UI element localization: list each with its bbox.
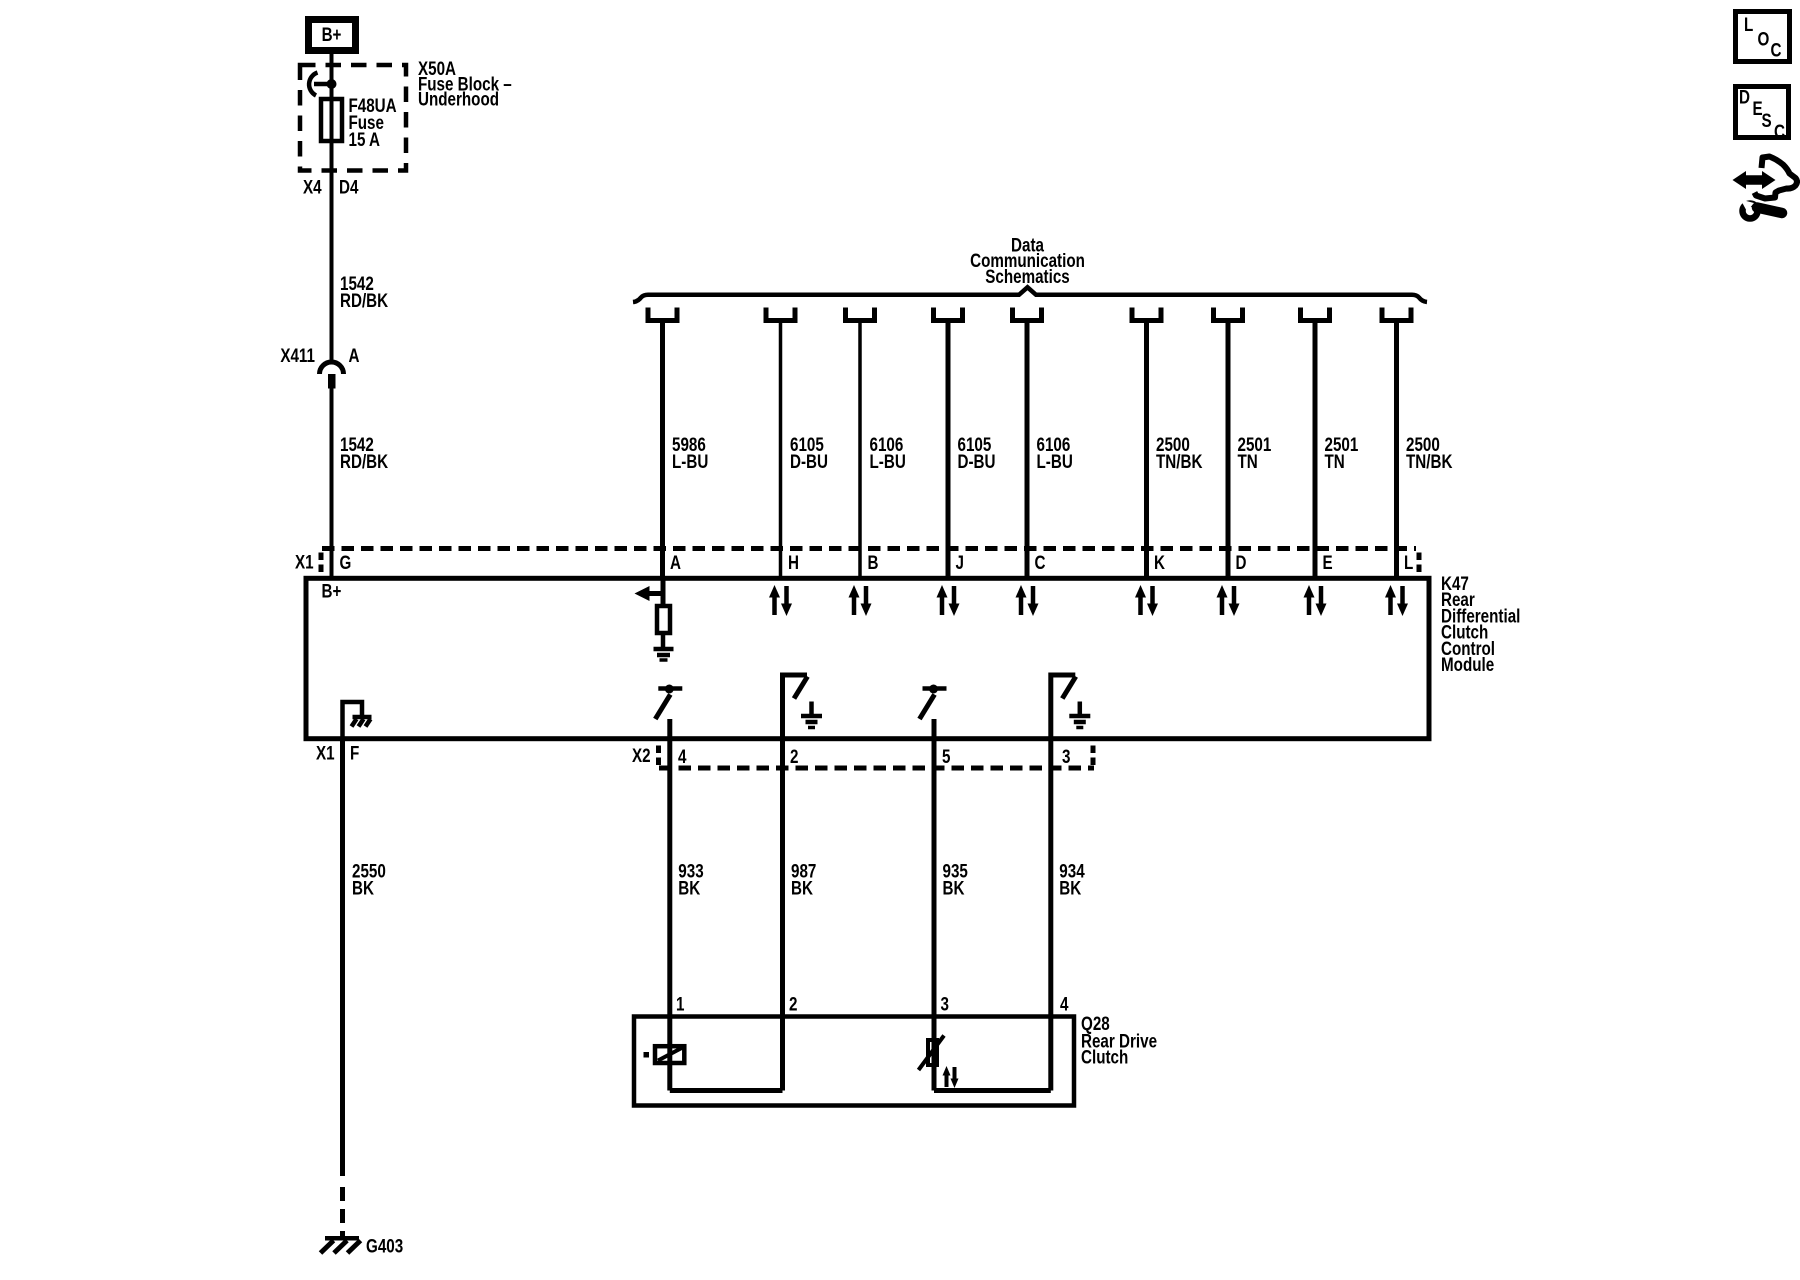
svg-text:2: 2 xyxy=(790,745,799,767)
svg-text:H: H xyxy=(788,551,799,573)
svg-text:E: E xyxy=(1323,551,1333,573)
svg-text:X1: X1 xyxy=(295,551,314,573)
svg-text:A: A xyxy=(349,344,360,366)
svg-text:B+: B+ xyxy=(322,23,342,45)
svg-text:X1: X1 xyxy=(316,741,335,763)
svg-text:3: 3 xyxy=(941,993,950,1015)
svg-text:TN: TN xyxy=(1238,450,1258,472)
svg-text:BK: BK xyxy=(943,877,965,899)
svg-text:Schematics: Schematics xyxy=(985,265,1069,287)
svg-text:2: 2 xyxy=(789,993,798,1015)
svg-text:5: 5 xyxy=(942,745,951,767)
svg-text:Clutch: Clutch xyxy=(1081,1046,1128,1068)
svg-text:BK: BK xyxy=(352,877,374,899)
svg-text:4: 4 xyxy=(678,745,687,767)
svg-text:1: 1 xyxy=(676,993,685,1015)
svg-text:D-BU: D-BU xyxy=(790,450,828,472)
svg-text:4: 4 xyxy=(1060,993,1069,1015)
svg-text:L-BU: L-BU xyxy=(1037,450,1073,472)
svg-text:BK: BK xyxy=(678,877,700,899)
svg-text:3: 3 xyxy=(1062,745,1071,767)
svg-text:D-BU: D-BU xyxy=(958,450,996,472)
svg-text:Module: Module xyxy=(1441,653,1494,675)
svg-text:G: G xyxy=(340,551,352,573)
svg-text:C: C xyxy=(1035,551,1046,573)
svg-text:X411: X411 xyxy=(280,344,315,366)
svg-text:L-BU: L-BU xyxy=(672,450,708,472)
svg-text:K: K xyxy=(1154,551,1165,573)
svg-text:S: S xyxy=(1762,109,1772,131)
svg-text:TN: TN xyxy=(1325,450,1345,472)
svg-text:D: D xyxy=(1236,551,1247,573)
svg-text:G403: G403 xyxy=(366,1235,403,1257)
svg-text:RD/BK: RD/BK xyxy=(340,450,388,472)
svg-text:B+: B+ xyxy=(322,580,342,602)
svg-text:X2: X2 xyxy=(632,744,651,766)
svg-text:TN/BK: TN/BK xyxy=(1156,450,1203,472)
svg-text:O: O xyxy=(1758,28,1770,50)
svg-text:L: L xyxy=(1744,13,1754,35)
svg-text:B: B xyxy=(868,551,879,573)
svg-text:15 A: 15 A xyxy=(349,128,381,150)
svg-text:D4: D4 xyxy=(339,175,359,197)
svg-text:Underhood: Underhood xyxy=(418,88,499,110)
svg-text:RD/BK: RD/BK xyxy=(340,289,388,311)
svg-text:L: L xyxy=(1404,551,1414,573)
svg-text:L-BU: L-BU xyxy=(870,450,906,472)
svg-text:A: A xyxy=(670,551,681,573)
svg-text:TN/BK: TN/BK xyxy=(1406,450,1453,472)
svg-text:F: F xyxy=(350,741,360,763)
svg-text:C: C xyxy=(1774,120,1785,142)
svg-text:C: C xyxy=(1771,39,1782,61)
svg-text:BK: BK xyxy=(1059,877,1081,899)
svg-text:D: D xyxy=(1739,86,1750,108)
svg-text:BK: BK xyxy=(791,877,813,899)
svg-text:X4: X4 xyxy=(303,175,322,197)
svg-text:J: J xyxy=(956,551,964,573)
